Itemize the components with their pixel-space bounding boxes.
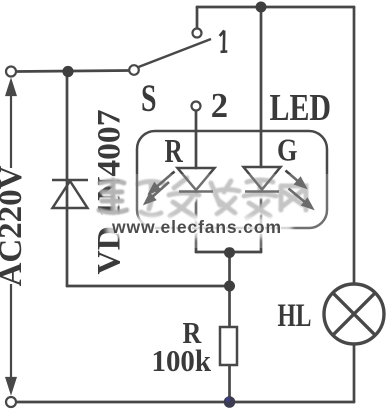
wire top bus bbox=[197, 6, 354, 9]
LED package outline bbox=[137, 131, 327, 228]
wire resistor R to bottom bus bbox=[228, 365, 231, 402]
terminal AC bottom bbox=[6, 397, 16, 407]
wire bottom bus bbox=[16, 401, 354, 404]
wire LED R cathode to bus bbox=[195, 192, 198, 253]
wire node at top to LED G anode bbox=[260, 7, 263, 167]
svg-text:S: S bbox=[141, 76, 157, 120]
node junction bottom bus bbox=[224, 396, 236, 408]
AC source arrow bbox=[7, 81, 16, 392]
svg-text:HL: HL bbox=[278, 298, 312, 334]
svg-text:100k: 100k bbox=[152, 343, 212, 378]
svg-text:2: 2 bbox=[211, 86, 228, 125]
switch S pole bbox=[129, 65, 139, 75]
switch S lever bbox=[139, 39, 212, 67]
svg-text:R: R bbox=[165, 133, 184, 170]
wire switch contact 1 to top bus bbox=[196, 7, 199, 29]
wire switch contact 2 to LED R anode bbox=[195, 111, 198, 169]
watermark www glow band bbox=[106, 217, 292, 238]
svg-text:LED: LED bbox=[270, 87, 332, 129]
svg-text:www.elecfans.com: www.elecfans.com bbox=[111, 217, 281, 237]
node junction cathode bus bbox=[224, 247, 235, 258]
node B junction bbox=[224, 281, 235, 292]
svg-text:G: G bbox=[277, 132, 298, 168]
LED G emission arrows bbox=[286, 171, 313, 209]
terminal AC top bbox=[6, 67, 16, 77]
wire lamp bottom bbox=[353, 344, 356, 402]
LED R emission arrows bbox=[146, 172, 175, 204]
wire left vertical through diode bbox=[66, 72, 69, 287]
watermark white haze bbox=[128, 174, 340, 248]
switch contact 1 bbox=[193, 29, 202, 38]
wire node B to resistor R bbox=[228, 286, 231, 327]
node junction left top bbox=[62, 66, 73, 77]
wire diode branch elbow to node B bbox=[67, 285, 230, 288]
diode VD bbox=[52, 180, 88, 208]
LED G bbox=[244, 167, 281, 192]
wire cathode bus to node B bbox=[228, 252, 231, 286]
wire LED cathode bus bbox=[196, 251, 261, 254]
switch contact 2 bbox=[192, 102, 201, 111]
wire LED G cathode to bus bbox=[260, 192, 263, 253]
label 1 bbox=[220, 31, 228, 52]
node junction at top bus bbox=[256, 2, 267, 13]
resistor R body bbox=[220, 327, 237, 365]
wire left terminal to switch pole bbox=[17, 71, 130, 72]
lamp HL bbox=[324, 284, 384, 344]
wire right vertical to lamp bbox=[353, 7, 356, 284]
LED R bbox=[178, 168, 215, 192]
svg-text:AC220V: AC220V bbox=[0, 165, 29, 286]
